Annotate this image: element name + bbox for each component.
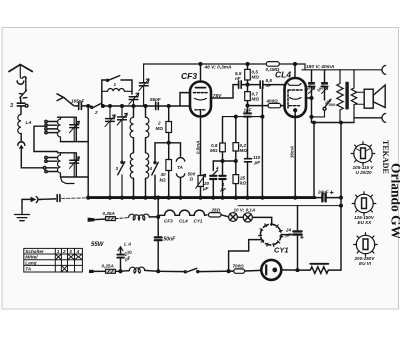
svg-text:Lang: Lang — [25, 260, 36, 265]
connector (wire break) — [20, 134, 22, 143]
pilot lamp 1 — [229, 213, 238, 222]
svg-text:4: 4 — [149, 166, 153, 171]
node main line — [87, 105, 90, 108]
TA terminals — [169, 143, 181, 156]
svg-text:MΩ: MΩ — [240, 148, 248, 153]
svg-text:L A: L A — [124, 242, 131, 247]
svg-text:EU VI: EU VI — [359, 261, 372, 266]
cathode wire CF3 — [200, 117, 202, 176]
svg-text:Orlando GW: Orlando GW — [389, 163, 400, 240]
svg-text:CL4: CL4 — [179, 219, 188, 224]
variable capacitor (osc padder) — [139, 83, 148, 86]
svg-text:3: 3 — [10, 103, 13, 109]
antenna input arrow — [57, 94, 64, 101]
svg-text:Schalter: Schalter — [25, 249, 45, 254]
svg-text:180 V; 40mA: 180 V; 40mA — [306, 64, 335, 70]
svg-text:700Ω: 700Ω — [233, 264, 245, 269]
svg-text:3: 3 — [69, 249, 72, 254]
svg-text:µF: µF — [285, 233, 292, 238]
svg-text:MΩ: MΩ — [156, 126, 164, 131]
ground — [15, 209, 30, 221]
field coil — [337, 70, 343, 123]
capacitor 1µF (cathode) — [244, 113, 251, 116]
RF choke coil (L) — [129, 214, 150, 220]
svg-text:2: 2 — [62, 249, 66, 254]
fuse 0,25A (L) — [106, 217, 116, 221]
svg-text:165pF: 165pF — [71, 99, 84, 104]
resistor 25kΩ — [233, 175, 239, 184]
resistor 0,2MΩ — [235, 117, 237, 143]
capacitor 55pF — [156, 102, 159, 109]
svg-text:28Ω: 28Ω — [211, 208, 221, 213]
spark gap arrester — [19, 90, 27, 98]
svg-text:2: 2 — [94, 110, 98, 115]
svg-text:4: 4 — [76, 249, 80, 254]
voltage selector 125-150V — [352, 192, 376, 216]
svg-text:TA: TA — [25, 267, 32, 272]
svg-text:36mA: 36mA — [290, 146, 295, 158]
svg-text:MΩ: MΩ — [210, 148, 218, 153]
svg-text:MΩ: MΩ — [252, 97, 260, 102]
tube CL4 — [294, 64, 296, 78]
switch 4 wire — [155, 143, 169, 162]
svg-text:1µF: 1µF — [244, 108, 252, 113]
capacitor 24µF b — [293, 231, 301, 234]
mains plug — [261, 260, 281, 280]
heater winding CL4 — [175, 210, 190, 215]
CY1 cathode wire — [281, 234, 297, 236]
svg-text:U 20/20: U 20/20 — [356, 170, 373, 175]
anode wire CF3 — [211, 85, 233, 98]
resistor 0,5MΩ — [247, 64, 249, 69]
bus junction dots — [87, 196, 90, 199]
output transformer core — [345, 82, 348, 110]
wire ground to chassis — [22, 199, 30, 208]
wire left column — [87, 106, 89, 198]
grid wire CF3 — [180, 93, 190, 106]
potentiometer 500Ω — [198, 176, 203, 187]
HT rail — [144, 63, 305, 65]
switch 2 — [88, 105, 91, 107]
switch table — [24, 248, 83, 272]
capacitor (chassis decoupling) — [57, 195, 60, 202]
svg-text:nF: nF — [235, 76, 241, 81]
antenna connector — [17, 81, 24, 84]
band coil group 2 — [57, 153, 74, 184]
svg-text:75V: 75V — [213, 93, 222, 99]
electrolytic 50µF a — [311, 70, 313, 82]
band coil group 2 taps — [45, 156, 57, 172]
main grid line — [103, 105, 191, 107]
speaker return — [354, 117, 382, 119]
voltage selector 105-115V — [351, 142, 375, 166]
variable capacitor (tuning 2) — [70, 160, 79, 163]
wire output bottom — [312, 117, 355, 123]
tube CF3 — [200, 64, 202, 82]
switch contact 450 — [324, 99, 326, 101]
capacitor 110pF — [245, 159, 252, 162]
svg-text:1: 1 — [114, 82, 117, 87]
chassis bus bar — [88, 196, 315, 199]
switch contact 4a — [212, 161, 214, 171]
coil LA — [18, 114, 21, 133]
svg-text:24µF: 24µF — [317, 190, 329, 195]
svg-text:CF3: CF3 — [164, 219, 173, 224]
capacitor 3 (antenna series cap) — [17, 103, 25, 106]
band coil group 1 — [57, 117, 60, 141]
svg-text:CF3: CF3 — [181, 71, 197, 81]
svg-text:500: 500 — [329, 102, 336, 107]
RF choke coil (N) — [121, 270, 130, 273]
svg-text:3: 3 — [116, 166, 119, 171]
wire to band coil taps — [21, 148, 43, 168]
tank loop 2 — [58, 153, 89, 177]
wave trap frame — [102, 80, 132, 106]
electrolytic 50µF b — [324, 70, 326, 82]
capacitor 165pF — [79, 102, 82, 109]
svg-text:Mittel: Mittel — [25, 255, 38, 260]
svg-text:10 V; 0,1A: 10 V; 0,1A — [234, 208, 256, 213]
AVC line — [213, 160, 236, 162]
variable capacitor (osc tuning A) — [106, 119, 115, 122]
svg-text:MΩ: MΩ — [252, 75, 260, 80]
resistor 400Ω — [248, 105, 269, 107]
variable capacitor (osc tuning B) — [118, 117, 127, 120]
svg-text:0,25A: 0,25A — [102, 264, 114, 269]
svg-text:µF: µF — [202, 186, 209, 191]
connector arrow — [31, 197, 35, 201]
capacitor 1µF (AVC) — [219, 176, 225, 179]
svg-text:µF: µF — [220, 187, 227, 192]
switch 4 — [152, 162, 159, 175]
svg-text:400Ω: 400Ω — [266, 99, 279, 104]
speaker connector bottom — [382, 113, 386, 122]
resistor 2MΩ — [168, 106, 170, 122]
heater winding CF3 — [158, 210, 175, 215]
wire — [20, 106, 22, 114]
mains run L — [88, 218, 94, 221]
capacitor 24µF a — [315, 197, 322, 199]
mains switch — [158, 270, 184, 272]
resistor 0,7MΩ — [247, 85, 249, 92]
svg-text:kΩ: kΩ — [240, 181, 247, 186]
svg-text:55pF: 55pF — [150, 97, 161, 102]
variable capacitor (trap trim) — [129, 97, 138, 100]
lamp shunt line — [238, 205, 341, 207]
svg-text:kΩ: kΩ — [160, 178, 167, 183]
oscillator coil right — [145, 106, 147, 117]
tank loop 1 — [58, 117, 89, 141]
svg-text:1: 1 — [57, 249, 60, 254]
resistor 0,1MΩ (rail) — [266, 62, 279, 67]
band coil group 1 taps — [45, 120, 57, 134]
HT rail right — [302, 64, 382, 70]
oscillator coil left — [133, 106, 135, 117]
cathode wire CL4 — [294, 117, 296, 198]
resistor 700Ω — [234, 269, 245, 273]
svg-text:CY1: CY1 — [194, 219, 203, 224]
heater winding CY1 — [190, 210, 207, 215]
wire lamp to CY1 — [252, 217, 271, 224]
svg-text:EU XX: EU XX — [358, 220, 373, 225]
svg-text:0,25A: 0,25A — [103, 211, 115, 216]
right return wire — [340, 123, 342, 271]
fuse 0,25A (N) — [106, 269, 116, 273]
switch 3 — [118, 162, 125, 175]
table text — [25, 249, 79, 272]
svg-text:55W: 55W — [91, 242, 105, 248]
capacitor 270pF — [117, 255, 124, 258]
svg-text:0,5mA: 0,5mA — [195, 141, 200, 154]
capacitor 50nF — [155, 237, 162, 240]
svg-text:TA: TA — [177, 165, 183, 170]
resistor 0,8MΩ — [222, 117, 224, 143]
voltage selector 200-250V — [354, 233, 378, 257]
svg-text:pF: pF — [254, 160, 261, 165]
svg-text:4: 4 — [215, 166, 219, 171]
smoothing line — [297, 206, 299, 271]
svg-text:nF: nF — [266, 83, 272, 88]
svg-text:Ω: Ω — [189, 177, 194, 182]
link loop left — [34, 126, 58, 151]
LA terminal arrow — [118, 247, 123, 253]
tube CY1 — [259, 222, 283, 246]
svg-text:LA: LA — [26, 120, 32, 125]
anode net line — [223, 116, 263, 118]
grid leak vertical — [261, 87, 263, 198]
capacitor 20µF — [210, 176, 216, 179]
svg-text:2: 2 — [157, 121, 161, 126]
speaker links — [356, 92, 365, 104]
screen wire CL4 — [306, 97, 312, 99]
resistor 30kΩ — [166, 160, 172, 171]
pilot lamp 2 — [237, 216, 243, 218]
dropper line — [157, 198, 159, 237]
switch 1 — [107, 76, 119, 81]
svg-text:30: 30 — [161, 172, 167, 177]
variable capacitor (tuning 1) — [70, 125, 79, 128]
CY1 anode wire — [229, 240, 262, 272]
mains run N — [89, 270, 94, 273]
antenna — [9, 65, 32, 79]
svg-text:0,1MΩ: 0,1MΩ — [266, 67, 280, 72]
wave trap coil — [102, 88, 132, 91]
grid capacitor 5,5nF b — [260, 81, 263, 88]
coupling capacitor 5,5nF a — [239, 81, 242, 88]
resistor 28Ω — [209, 213, 222, 217]
svg-text:46 V; 0,3mA: 46 V; 0,3mA — [204, 65, 233, 71]
transformer secondary — [351, 70, 356, 123]
barretter resistor — [298, 267, 342, 274]
svg-text:50nF: 50nF — [164, 237, 177, 243]
speaker connector top — [382, 65, 386, 74]
svg-text:CY1: CY1 — [274, 246, 289, 255]
